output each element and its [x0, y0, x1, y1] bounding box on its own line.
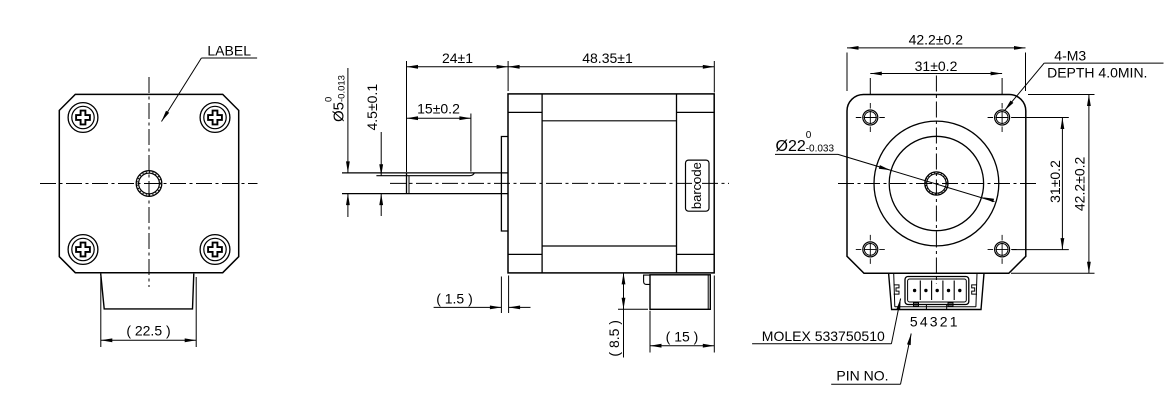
- svg-text:31±0.2: 31±0.2: [915, 58, 958, 74]
- svg-text:54321: 54321: [910, 314, 960, 330]
- svg-text:MOLEX 533750510: MOLEX 533750510: [762, 328, 885, 344]
- svg-text:( 8.5 ): ( 8.5 ): [606, 320, 622, 357]
- svg-text:4-M3: 4-M3: [1054, 47, 1086, 63]
- svg-text:PIN NO.: PIN NO.: [836, 367, 888, 383]
- svg-text:15±0.2: 15±0.2: [417, 101, 460, 117]
- svg-text:( 22.5 ): ( 22.5 ): [126, 323, 170, 339]
- svg-text:4.5±0.1: 4.5±0.1: [364, 84, 380, 131]
- svg-text:DEPTH 4.0MIN.: DEPTH 4.0MIN.: [1047, 65, 1147, 81]
- svg-text:barcode: barcode: [689, 162, 704, 209]
- svg-text:( 15 ): ( 15 ): [666, 328, 699, 344]
- svg-text:24±1: 24±1: [442, 50, 473, 66]
- svg-text:48.35±1: 48.35±1: [582, 50, 633, 66]
- svg-text:31±0.2: 31±0.2: [1047, 160, 1063, 203]
- svg-text:42.2±0.2: 42.2±0.2: [1071, 156, 1087, 211]
- svg-text:42.2±0.2: 42.2±0.2: [909, 32, 964, 48]
- svg-text:( 1.5 ): ( 1.5 ): [436, 290, 473, 306]
- svg-text:LABEL: LABEL: [207, 42, 251, 58]
